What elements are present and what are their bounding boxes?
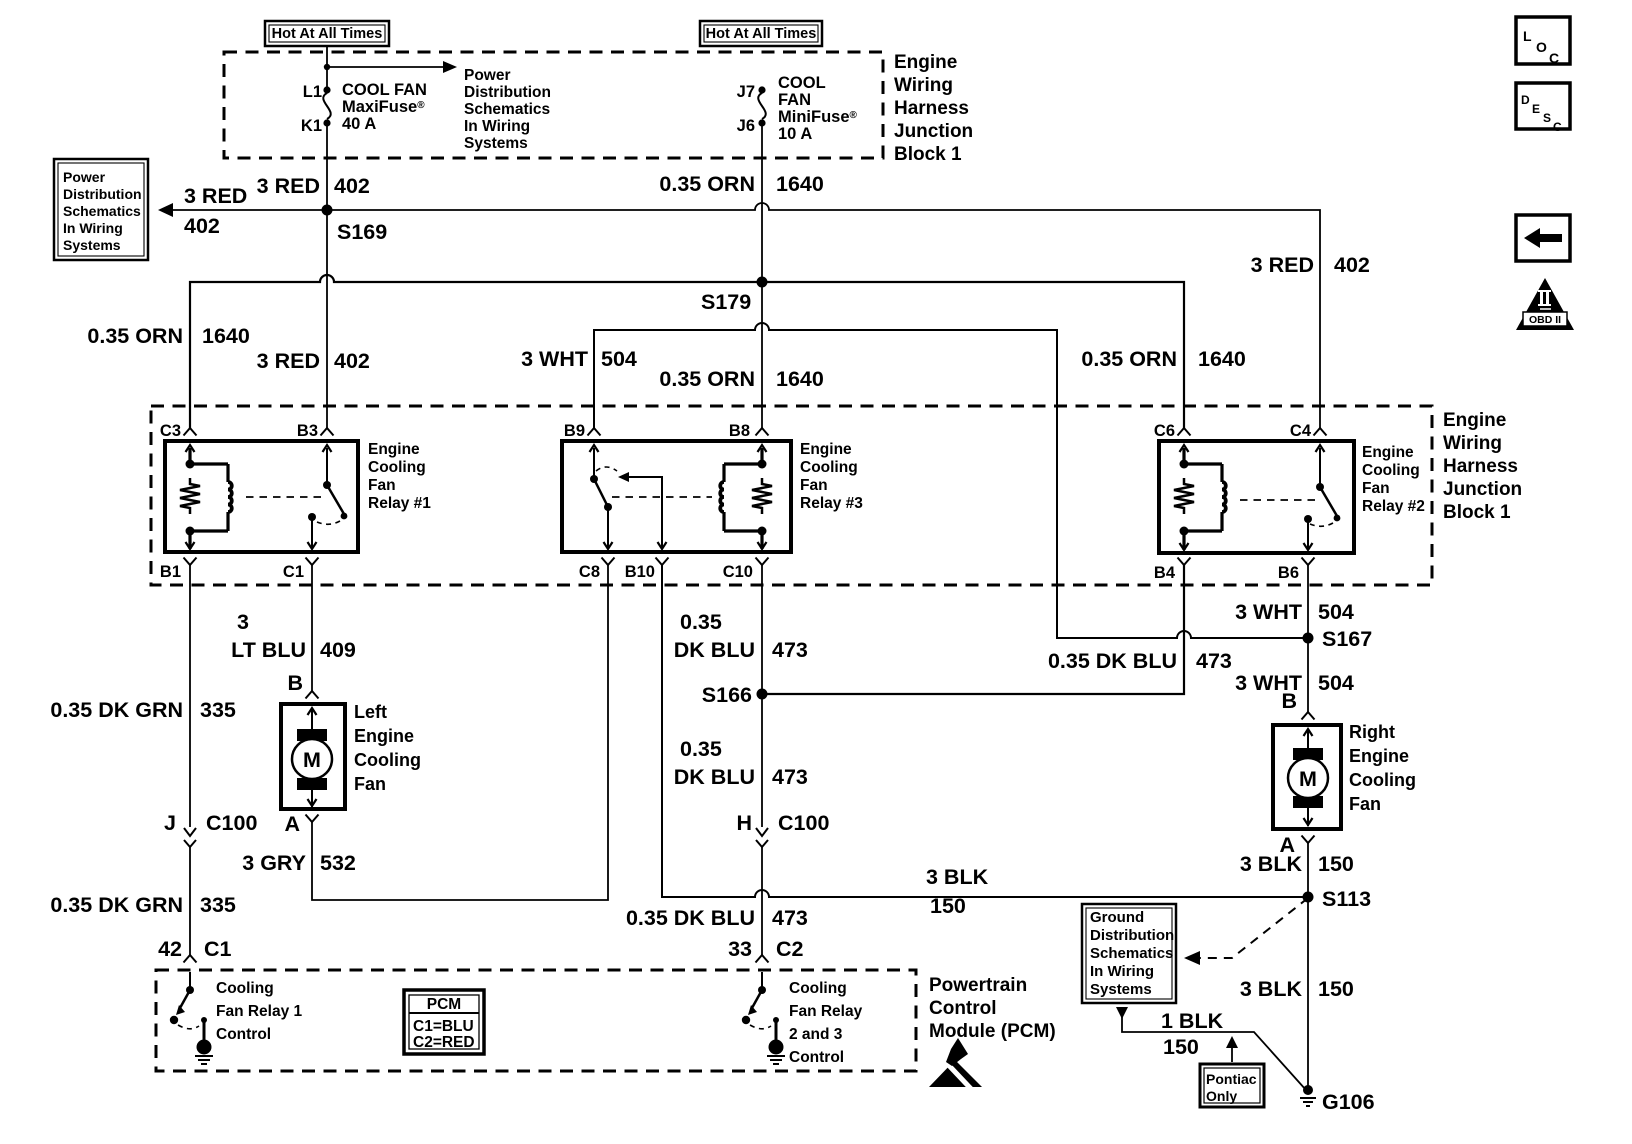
relay K1 switch arm (327, 485, 344, 514)
svg-text:Engine: Engine (894, 52, 957, 73)
wire: 0.35 DK GRN 335 relay1 B1 down to PCM pin 42 (189, 565, 191, 955)
relay K3 B10 contact arrowhead (618, 472, 629, 482)
svg-text:3 BLK: 3 BLK (926, 865, 989, 889)
ESD sensitive symbol (929, 1038, 982, 1092)
svg-text:Power: Power (464, 67, 511, 84)
svg-text:Schematics: Schematics (1090, 945, 1173, 962)
svg-text:3 WHT: 3 WHT (1235, 600, 1302, 624)
svg-text:COOL FAN: COOL FAN (342, 81, 427, 99)
node: coil top (1180, 460, 1189, 469)
pin C8 (579, 542, 615, 581)
label: 0.35 DK GRN 335 (lower) (50, 893, 236, 917)
svg-text:Junction: Junction (894, 121, 973, 142)
svg-text:Engine: Engine (1443, 410, 1506, 431)
svg-text:J7: J7 (737, 83, 755, 101)
pin C1 (283, 542, 319, 581)
pin B8 (729, 422, 769, 452)
LOC icon box (1516, 17, 1570, 66)
label: 3 BLK 150 (center two-line) (926, 865, 989, 918)
svg-text:C2=RED: C2=RED (413, 1034, 475, 1051)
svg-text:1640: 1640 (1198, 347, 1246, 371)
motor M2: Right Engine Cooling Fan (1273, 712, 1341, 829)
svg-text:473: 473 (772, 906, 808, 930)
pin B10 (625, 542, 669, 581)
back-arrow icon box (1516, 215, 1570, 261)
svg-text:H: H (736, 811, 752, 835)
svg-text:3 BLK: 3 BLK (1240, 977, 1303, 1001)
label: 3 BLK 150 (right fan) (1240, 852, 1354, 876)
node: coil bottom (1180, 527, 1189, 536)
svg-text:3 GRY: 3 GRY (242, 851, 306, 875)
label: 3 RED 402 (to power dist) (184, 184, 247, 238)
svg-text:C3: C3 (160, 422, 181, 440)
splice S113 (1303, 892, 1314, 903)
svg-text:504: 504 (601, 347, 637, 371)
svg-text:Schematics: Schematics (63, 203, 141, 219)
relay K2 actuation dashed link (1240, 499, 1315, 501)
svg-text:A: A (284, 812, 300, 836)
svg-text:Distribution: Distribution (464, 84, 551, 101)
svg-text:0.35 ORN: 0.35 ORN (87, 324, 183, 348)
svg-text:2 and 3: 2 and 3 (789, 1026, 843, 1043)
svg-text:In Wiring: In Wiring (464, 118, 530, 135)
svg-text:Control: Control (929, 998, 997, 1019)
splice S179 (757, 277, 768, 288)
svg-text:S: S (1543, 111, 1551, 125)
svg-text:409: 409 (320, 638, 356, 662)
PCM driver: Cooling Fan Relay 2 and 3 Control switch (742, 972, 785, 1064)
wire: 3 RED 402 vertical K1 to relay1 B3 (326, 123, 328, 428)
label: Powertrain Control Module (PCM) (929, 975, 1056, 1042)
relay K1 coil branch wires (190, 448, 228, 549)
label: 0.35 DK BLU 473 (right, S166 branch) (1048, 649, 1232, 673)
relay K2 switch common wire (1319, 448, 1321, 487)
splice S166 (757, 689, 768, 700)
svg-text:C6: C6 (1154, 422, 1175, 440)
svg-text:Distribution: Distribution (1090, 927, 1174, 944)
svg-text:OBD II: OBD II (1529, 314, 1561, 326)
label: Engine Cooling Fan Relay #1 (368, 441, 431, 512)
svg-text:Fan: Fan (354, 774, 386, 794)
svg-text:L1: L1 (303, 83, 322, 101)
relay K1 box: Engine Cooling Fan Relay #1 (165, 441, 358, 552)
svg-text:MiniFuse®: MiniFuse® (778, 108, 858, 126)
svg-text:473: 473 (772, 638, 808, 662)
label: 3 GRY 532 (242, 851, 356, 875)
relay K1 actuation dashed link (246, 496, 322, 498)
svg-text:Fan Relay: Fan Relay (789, 1003, 863, 1020)
relay K3 box: Engine Cooling Fan Relay #3 (562, 441, 791, 552)
svg-text:M: M (303, 748, 321, 772)
relay K3 actuation dashed link (612, 496, 712, 498)
connector C100 pin H (736, 811, 829, 847)
Engine Wiring Harness Junction Block 1 (top, dashed) (224, 52, 883, 158)
relay K3 switch common wire (593, 448, 595, 479)
svg-text:B10: B10 (625, 563, 655, 581)
ground G106 (1300, 1085, 1375, 1114)
node: coil bottom (758, 527, 767, 536)
svg-text:Hot At All Times: Hot At All Times (706, 26, 817, 42)
svg-text:O: O (1536, 39, 1547, 55)
pin C3 (160, 422, 197, 452)
svg-text:Fan: Fan (1349, 794, 1381, 814)
relay K1 coil resistor (180, 478, 200, 514)
svg-text:3 RED: 3 RED (184, 184, 247, 208)
svg-text:Power: Power (63, 169, 106, 185)
pin C4 (1290, 422, 1327, 452)
svg-text:DK BLU: DK BLU (674, 638, 755, 662)
svg-text:S166: S166 (702, 683, 752, 707)
svg-text:S167: S167 (1322, 627, 1372, 651)
svg-text:Control: Control (789, 1049, 844, 1066)
fuse F1 COOL FAN MaxiFuse 40 A (301, 81, 427, 135)
svg-text:Block 1: Block 1 (894, 144, 962, 165)
svg-text:COOL: COOL (778, 74, 826, 92)
svg-text:Ground: Ground (1090, 909, 1144, 926)
svg-text:Engine: Engine (800, 441, 852, 458)
svg-text:C4: C4 (1290, 422, 1312, 440)
svg-text:504: 504 (1318, 600, 1354, 624)
label: 0.35 DK BLU 473 (above S166) (674, 610, 808, 662)
svg-text:C100: C100 (778, 811, 829, 835)
svg-text:M: M (1299, 767, 1317, 791)
svg-text:0.35 DK BLU: 0.35 DK BLU (626, 906, 755, 930)
label: Cooling Fan Relay 1 Control (216, 980, 303, 1043)
svg-text:402: 402 (184, 214, 220, 238)
svg-text:G106: G106 (1322, 1090, 1375, 1114)
svg-text:3 RED: 3 RED (257, 349, 320, 373)
splice S167 (1303, 633, 1314, 644)
svg-text:Only: Only (1206, 1088, 1237, 1104)
pin C10 (723, 542, 769, 581)
label: 3 RED 402 (upper) (257, 174, 370, 198)
label: Engine Cooling Fan Relay #3 (800, 441, 863, 512)
pin C6 (1154, 422, 1191, 452)
svg-text:C1=BLU: C1=BLU (413, 1018, 474, 1035)
wire: B10 to S113 (3 BLK 150) with hop (662, 565, 1308, 897)
svg-text:Cooling: Cooling (789, 980, 847, 997)
svg-text:Cooling: Cooling (1349, 770, 1416, 790)
relay K1 switch common wire (326, 448, 328, 485)
wire: S169 to Power Distribution box arrow (158, 203, 327, 217)
dashed pointer S113 to Ground Distribution box (1184, 898, 1308, 965)
svg-text:Fan: Fan (368, 477, 396, 494)
label: 3 WHT 504 (below S167) (1235, 671, 1354, 695)
svg-text:1 BLK: 1 BLK (1161, 1009, 1224, 1033)
svg-text:E: E (1532, 102, 1540, 116)
svg-text:DK BLU: DK BLU (674, 765, 755, 789)
svg-text:Engine: Engine (1349, 746, 1409, 766)
wire: 3 BLK 150 right fan A to S113 to G106 (1307, 843, 1309, 1090)
svg-text:Cooling: Cooling (354, 750, 421, 770)
svg-text:J: J (164, 811, 176, 835)
Ground Distribution Schematics box (1082, 904, 1176, 1003)
svg-text:Powertrain: Powertrain (929, 975, 1027, 996)
Powertrain Control Module (PCM) dashed box (156, 970, 916, 1071)
relay K3 coil branch wires (724, 448, 762, 549)
label: Power Distribution Schematics In Wiring Systems (top) (464, 67, 551, 152)
svg-text:C100: C100 (206, 811, 257, 835)
label: Left Engine Cooling Fan (354, 702, 421, 794)
svg-text:Module (PCM): Module (PCM) (929, 1021, 1056, 1042)
svg-text:40 A: 40 A (342, 115, 376, 133)
svg-text:Control: Control (216, 1026, 271, 1043)
svg-text:0.35: 0.35 (680, 610, 722, 634)
PCM connector legend box (404, 990, 484, 1054)
svg-text:K1: K1 (301, 117, 322, 135)
relay K1 switch contact (308, 513, 316, 521)
svg-text:B: B (287, 671, 303, 695)
relay K3 coil resistor (752, 478, 772, 514)
svg-text:3 BLK: 3 BLK (1240, 852, 1303, 876)
relay K2 box: Engine Cooling Fan Relay #2 (1159, 441, 1354, 553)
node: coil bottom (186, 527, 195, 536)
label: 3 RED 402 (right) (1251, 253, 1370, 277)
svg-text:Systems: Systems (63, 237, 121, 253)
Power Distribution Schematics box (left) (54, 159, 148, 260)
wire: 0.35 DK BLU 473 relay3 C10 down to PCM pin 33 (761, 565, 763, 955)
svg-text:Pontiac: Pontiac (1206, 1071, 1257, 1087)
pin B1 (160, 542, 197, 581)
svg-text:J6: J6 (737, 117, 755, 135)
svg-text:42: 42 (158, 937, 182, 961)
PCM driver: Cooling Fan Relay 1 Control switch (170, 972, 213, 1064)
wire: 3 WHT 504 relay3 B9 up/over to S167, hops (594, 323, 1308, 638)
svg-text:Hot At All Times: Hot At All Times (272, 26, 383, 42)
svg-text:S179: S179 (701, 290, 751, 314)
label: Engine Wiring Harness Junction Block 1 (right) (1443, 410, 1522, 523)
pin B6 (1278, 543, 1315, 582)
label: 0.35 ORN 1640 (right) (1081, 347, 1245, 371)
svg-text:Schematics: Schematics (464, 101, 550, 118)
svg-text:335: 335 (200, 698, 236, 722)
svg-text:L: L (1523, 28, 1532, 44)
svg-text:C: C (1553, 120, 1562, 134)
svg-text:335: 335 (200, 893, 236, 917)
node: coil top (186, 460, 195, 469)
svg-text:Distribution: Distribution (63, 186, 142, 202)
svg-text:504: 504 (1318, 671, 1354, 695)
svg-text:Relay #2: Relay #2 (1362, 498, 1425, 515)
svg-text:1640: 1640 (202, 324, 250, 348)
svg-text:Block 1: Block 1 (1443, 502, 1511, 523)
label: 0.35 DK BLU 473 (bottom) (626, 906, 808, 930)
svg-text:473: 473 (1196, 649, 1232, 673)
svg-text:Harness: Harness (894, 98, 969, 119)
svg-text:C8: C8 (579, 563, 600, 581)
Pontiac Only box (1200, 1064, 1264, 1107)
svg-text:1640: 1640 (776, 367, 824, 391)
svg-text:C: C (1549, 50, 1559, 66)
svg-text:0.35 DK GRN: 0.35 DK GRN (50, 893, 183, 917)
wire: arrow to Power Distribution Schematics (top) (327, 61, 457, 73)
wire: S166 to relay2 B4 (0.35 DK BLU 473) (762, 565, 1184, 694)
svg-text:10 A: 10 A (778, 125, 812, 143)
svg-text:Left: Left (354, 702, 387, 722)
svg-text:Engine: Engine (1362, 444, 1414, 461)
pin B3 (297, 422, 334, 452)
svg-text:0.35 ORN: 0.35 ORN (1081, 347, 1177, 371)
svg-text:150: 150 (1163, 1035, 1199, 1059)
relay K2 switch arm (1320, 487, 1337, 516)
svg-text:Relay #1: Relay #1 (368, 495, 431, 512)
svg-text:3: 3 (237, 610, 249, 634)
svg-text:B4: B4 (1154, 564, 1176, 582)
motor M1: Left Engine Cooling Fan (281, 691, 345, 809)
svg-text:Engine: Engine (354, 726, 414, 746)
svg-text:Cooling: Cooling (1362, 462, 1420, 479)
svg-text:532: 532 (320, 851, 356, 875)
svg-text:3 RED: 3 RED (257, 174, 320, 198)
svg-text:150: 150 (1318, 977, 1354, 1001)
wire: 0.35 ORN 1640 vertical J6 down to relay3 B8 (761, 123, 763, 428)
relay K3 switch arm to C8 contact (594, 479, 608, 507)
svg-text:Right: Right (1349, 722, 1395, 742)
svg-text:In Wiring: In Wiring (63, 220, 123, 236)
relay K1 switch pivot (323, 481, 331, 489)
svg-text:MaxiFuse®: MaxiFuse® (342, 98, 425, 116)
svg-text:C1: C1 (204, 937, 232, 961)
relay K3 switch pivot (590, 475, 598, 483)
DESC icon box (1516, 83, 1570, 134)
svg-text:0.35 DK BLU: 0.35 DK BLU (1048, 649, 1177, 673)
svg-text:Cooling: Cooling (368, 459, 426, 476)
label: 3 BLK 150 (above G106) (1240, 977, 1354, 1001)
relay K3 coil inductor (720, 482, 724, 512)
svg-text:S169: S169 (337, 220, 387, 244)
svg-text:3 RED: 3 RED (1251, 253, 1314, 277)
Hot At All Times box (left) (265, 21, 389, 46)
svg-text:D: D (1521, 93, 1530, 107)
label: Engine Wiring Harness Junction Block 1 (top) (894, 52, 973, 165)
svg-text:Systems: Systems (1090, 981, 1152, 998)
svg-text:0.35 ORN: 0.35 ORN (659, 367, 755, 391)
relay K3 B10 contact wire (628, 477, 662, 549)
svg-text:Relay #3: Relay #3 (800, 495, 863, 512)
relay K2 coil branch wires (1184, 448, 1222, 550)
wire: 3 GRY 532 left fan A to relay3 C8 (312, 565, 608, 900)
svg-text:Wiring: Wiring (894, 75, 953, 96)
relay K2 switch pivot (1316, 483, 1324, 491)
Hot At All Times box (right) (700, 21, 822, 46)
label: Cooling Fan Relay 2 and 3 Control (789, 980, 863, 1066)
label: Right Engine Cooling Fan (1349, 722, 1416, 814)
pin 42 C1 (PCM) (158, 937, 231, 963)
svg-text:Fan Relay 1: Fan Relay 1 (216, 1003, 303, 1020)
svg-text:Wiring: Wiring (1443, 433, 1502, 454)
svg-text:B: B (1281, 689, 1297, 713)
pin A (right fan) fork (1302, 836, 1315, 844)
wire: 3 WHT 504 relay2 B6 down to right fan B (1307, 565, 1309, 712)
svg-text:B6: B6 (1278, 564, 1299, 582)
svg-text:C2: C2 (776, 937, 804, 961)
relay K2 switch travel arc (dashed) (1310, 523, 1333, 526)
node: coil top (758, 460, 767, 469)
label: 3 WHT 504 (above S167) (1235, 600, 1354, 624)
label: 3 LT BLU 409 (231, 610, 356, 662)
relay K1 coil inductor (228, 482, 232, 512)
svg-text:Harness: Harness (1443, 456, 1518, 477)
svg-text:PCM: PCM (427, 996, 461, 1013)
label: Engine Cooling Fan Relay #2 (1362, 444, 1425, 515)
svg-text:Junction: Junction (1443, 479, 1522, 500)
svg-text:C10: C10 (723, 563, 753, 581)
svg-text:Fan: Fan (800, 477, 828, 494)
svg-text:B9: B9 (564, 422, 585, 440)
arrow: Pontiac Only to 1 BLK wire (1226, 1036, 1238, 1062)
pin A (left fan) fork (306, 815, 319, 823)
svg-text:B1: B1 (160, 563, 181, 581)
relay K2 switch contact (1304, 515, 1312, 523)
svg-text:Systems: Systems (464, 135, 528, 152)
svg-text:1640: 1640 (776, 172, 824, 196)
pin B9 (564, 422, 601, 452)
svg-text:0.35 DK GRN: 0.35 DK GRN (50, 698, 183, 722)
relay K3 C8 contact wire (607, 507, 609, 549)
label: 0.35 DK GRN 335 (upper) (50, 698, 236, 722)
label: 3 WHT 504 (upper) (521, 347, 637, 371)
svg-text:402: 402 (334, 174, 370, 198)
svg-text:33: 33 (728, 937, 752, 961)
wire: Hot feed into MaxiFuse (326, 46, 328, 90)
Engine Wiring Harness Junction Block 1 (middle, dashed) (151, 406, 1432, 585)
relay K3 switch travel arc (dashed) (596, 467, 617, 471)
relay K2 coil inductor (1222, 482, 1226, 512)
svg-text:S113: S113 (1322, 887, 1371, 911)
svg-text:402: 402 (1334, 253, 1370, 277)
svg-text:Cooling: Cooling (800, 459, 858, 476)
svg-text:402: 402 (334, 349, 370, 373)
svg-text:150: 150 (930, 894, 966, 918)
svg-text:C1: C1 (283, 563, 304, 581)
svg-text:Fan: Fan (1362, 480, 1390, 497)
wire: S169 horizontal to C4 relay2 (3 RED 402) with hop (327, 203, 1320, 428)
splice S169 (322, 205, 333, 216)
svg-text:Engine: Engine (368, 441, 420, 458)
label: 0.35 DK BLU 473 (below S166) (674, 737, 808, 789)
svg-text:473: 473 (772, 765, 808, 789)
svg-text:Cooling: Cooling (216, 980, 274, 997)
svg-text:FAN: FAN (778, 91, 811, 109)
label: 1 BLK 150 (1161, 1009, 1224, 1059)
wire: 3 LT BLU 409 relay1 C1 down to left fan B (311, 565, 313, 691)
wire: 1 BLK 150 from Ground Distribution to G106 (1116, 1007, 1306, 1090)
label: 0.35 ORN 1640 (left) (87, 324, 249, 348)
pin 33 C2 (PCM) (728, 937, 803, 963)
relay K1 switch travel arc (dashed) (317, 521, 340, 524)
label: 0.35 ORN 1640 (center) (659, 367, 823, 391)
svg-text:B3: B3 (297, 422, 318, 440)
connector C100 pin J (164, 811, 257, 847)
svg-text:150: 150 (1318, 852, 1354, 876)
OBD II triangle icon (1516, 278, 1574, 330)
svg-text:In Wiring: In Wiring (1090, 963, 1154, 980)
svg-text:0.35 ORN: 0.35 ORN (659, 172, 755, 196)
node: branch to power distribution arrow (324, 64, 330, 70)
wire: S179 horizontal 0.35 ORN to relay1 C3 and relay2 C6, hop over RED (190, 275, 1184, 428)
svg-text:LT BLU: LT BLU (231, 638, 306, 662)
svg-text:0.35: 0.35 (680, 737, 722, 761)
pin B4 (1154, 543, 1191, 582)
label: 3 RED 402 (mid) (257, 349, 370, 373)
svg-text:B8: B8 (729, 422, 750, 440)
svg-text:3 WHT: 3 WHT (521, 347, 588, 371)
relay K2 coil resistor (1174, 478, 1194, 514)
label: 0.35 ORN 1640 (upper) (659, 172, 823, 196)
fuse F2 COOL FAN MiniFuse 10 A (737, 74, 858, 143)
